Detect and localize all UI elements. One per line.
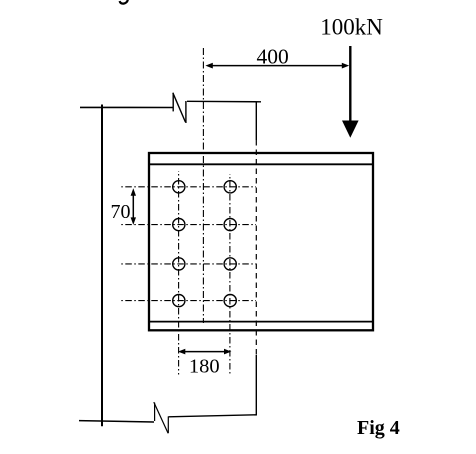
dimension line 400 — [205, 63, 349, 69]
bolt B2 — [224, 219, 236, 231]
plate top flange inner line — [149, 163, 373, 165]
column bottom line left segment — [79, 421, 154, 422]
bolt C2 — [224, 258, 236, 270]
column bottom line right segment — [169, 415, 258, 417]
svg-text:100kN: 100kN — [320, 15, 383, 40]
dimension text 180 — [189, 356, 220, 378]
break symbol bottom — [154, 402, 169, 433]
bolt B1 — [173, 219, 185, 231]
svg-text:Fig 4: Fig 4 — [357, 417, 400, 439]
bolt column centerline 2 (vertical dash-dot) — [229, 174, 231, 374]
column left flange line — [101, 105, 103, 427]
column top line left segment — [80, 106, 173, 108]
force arrow 100kN — [342, 46, 359, 138]
bolt row centerline 4 — [121, 300, 257, 302]
svg-text:70: 70 — [111, 201, 131, 223]
centerline of column (vertical dash-dot) — [202, 48, 204, 323]
dimension text 400 — [256, 45, 288, 69]
bolt D2 — [224, 295, 236, 307]
svg-text:400: 400 — [256, 45, 288, 69]
dimension text 70 — [111, 201, 131, 223]
label 100kN — [320, 15, 383, 40]
dimension line 180 (horizontal double arrow) — [178, 349, 232, 355]
plate bottom flange inner line — [149, 321, 373, 323]
caption Fig 4 — [357, 417, 400, 439]
column right flange line lower solid — [255, 355, 257, 416]
column right flange line hidden (dashed behind plate) — [255, 140, 257, 355]
bolt row centerline 1 — [121, 186, 257, 188]
dimension line 70 (vertical double arrow) — [131, 188, 136, 225]
bolt C1 — [173, 258, 185, 270]
column right flange line upper solid — [255, 102, 257, 141]
bolt A1 — [173, 181, 185, 193]
svg-text:180: 180 — [189, 356, 220, 378]
bolt D1 — [173, 295, 185, 307]
bracket plate outline — [149, 153, 373, 330]
bolt A2 — [224, 181, 236, 193]
break symbol top — [173, 93, 186, 123]
bolt row centerline 2 — [121, 224, 257, 226]
bolt row centerline 3 — [121, 263, 257, 265]
partial letter g (cut-off text above figure) — [120, 0, 128, 4]
column top line right segment — [187, 100, 261, 103]
bolt column centerline 1 (vertical dash-dot) — [178, 171, 180, 375]
